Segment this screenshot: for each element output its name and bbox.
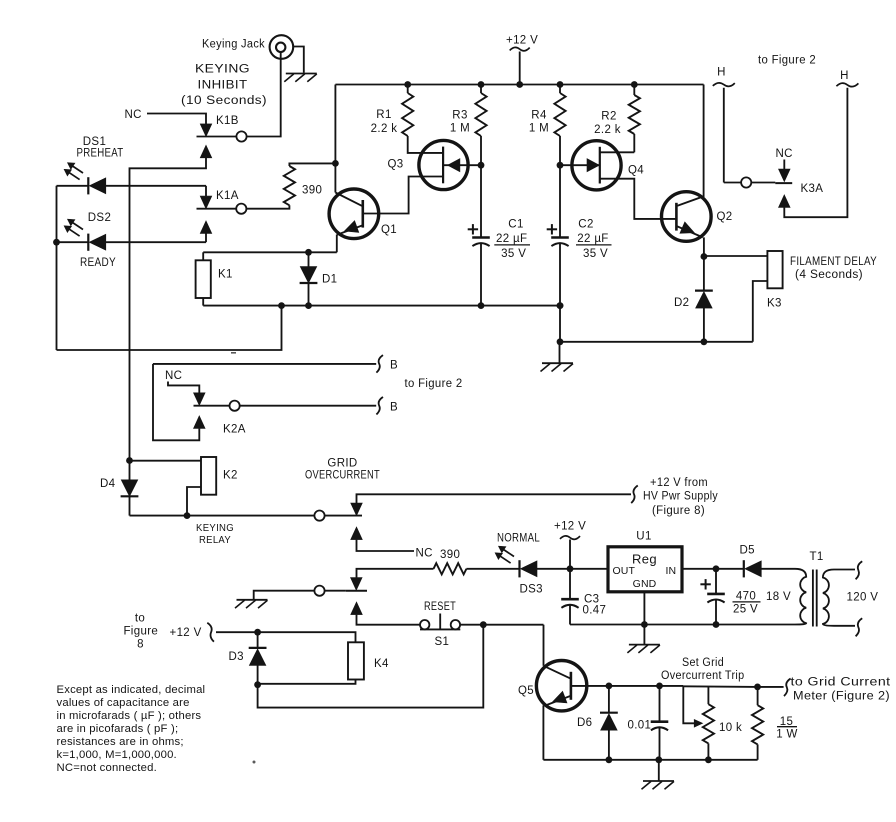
svg-text:8: 8 xyxy=(137,638,144,650)
wire K3A fixed xyxy=(751,182,775,184)
node K2 bottom xyxy=(184,512,191,519)
svg-text:Set Grid: Set Grid xyxy=(682,657,724,669)
connector bracket grid meter xyxy=(784,679,791,697)
svg-text:K3: K3 xyxy=(767,298,782,310)
diode D5 xyxy=(743,560,745,577)
keying jack J1 xyxy=(270,35,294,59)
wire collector rail to meter xyxy=(683,685,757,688)
wire D6 leads xyxy=(608,686,610,713)
svg-text:NORMAL: NORMAL xyxy=(497,533,540,545)
resistor R2 xyxy=(629,95,640,134)
wire K2 bottom xyxy=(187,487,201,516)
wire +12V row xyxy=(216,632,356,642)
svg-text:Q5: Q5 xyxy=(518,685,534,697)
connector bracket HV supply xyxy=(631,486,638,504)
svg-text:FILAMENT DELAY: FILAMENT DELAY xyxy=(790,256,877,268)
contact circle keying relay xyxy=(314,510,324,520)
svg-text:Except as indicated, decimal: Except as indicated, decimal xyxy=(57,684,206,696)
potentiometer 10 k xyxy=(703,704,714,743)
svg-text:Keying Jack: Keying Jack xyxy=(202,39,265,51)
wire ground stem 0.01 xyxy=(658,760,660,781)
wire bottom left run xyxy=(57,306,282,350)
node 0.01 top xyxy=(656,683,663,690)
wire rail jog down xyxy=(559,306,561,342)
svg-text:R4: R4 xyxy=(531,110,547,122)
wire D2 bottom xyxy=(703,308,705,342)
relay contact K3A lower arrow xyxy=(779,195,791,208)
svg-text:Q1: Q1 xyxy=(381,224,397,236)
svg-text:22 µF: 22 µF xyxy=(496,233,527,245)
relay contact K2A lower arrow xyxy=(194,416,206,429)
svg-text:GND: GND xyxy=(633,578,657,590)
wire R4 bottom to C2 xyxy=(559,136,561,237)
transistor Q4 channel bar xyxy=(599,147,601,184)
svg-text:D3: D3 xyxy=(229,651,244,663)
svg-text:k=1,000, M=1,000,000.: k=1,000, M=1,000,000. xyxy=(57,749,177,761)
wire K2A to B lower xyxy=(240,405,377,407)
wire K1B lower arm to left bus xyxy=(130,158,207,461)
wire K2A frame xyxy=(153,364,199,440)
svg-text:35 V: 35 V xyxy=(583,248,608,260)
contact circle row2 xyxy=(314,586,324,596)
wire jack sleeve to ground xyxy=(293,47,304,73)
relay coil K2 xyxy=(201,457,216,495)
svg-text:DS2: DS2 xyxy=(88,212,111,224)
svg-text:OVERCURRENT: OVERCURRENT xyxy=(305,470,380,482)
wire R1 bottom to Q3 drain xyxy=(408,136,443,153)
wire C2 bottom xyxy=(559,243,561,306)
wire K4 bottom xyxy=(258,680,356,684)
node +12V stem xyxy=(516,81,523,88)
node D3 bottom xyxy=(254,681,261,688)
wire row2 to ground xyxy=(254,591,346,600)
relay contact K1A armature arrow xyxy=(200,196,212,209)
svg-text:PREHEAT: PREHEAT xyxy=(77,148,124,160)
wire rail drop to Q1 node xyxy=(334,85,336,193)
diode D3 xyxy=(249,647,267,649)
svg-text:OUT: OUT xyxy=(613,565,636,577)
resistor R3 xyxy=(475,93,486,136)
ground below 0.01 xyxy=(643,780,674,782)
wire jack tip down to K1B xyxy=(247,52,281,136)
svg-text:INHIBIT: INHIBIT xyxy=(198,80,248,92)
relay contact row2 armature arrow xyxy=(351,578,363,591)
svg-text:Q4: Q4 xyxy=(628,165,644,177)
svg-text:to Figure 2: to Figure 2 xyxy=(758,55,816,67)
svg-text:U1: U1 xyxy=(636,531,651,543)
svg-text:K1: K1 xyxy=(218,269,233,281)
relay contact K3A upper arrow xyxy=(779,169,791,182)
svg-text:Overcurrent Trip: Overcurrent Trip xyxy=(661,670,745,682)
svg-text:D2: D2 xyxy=(674,297,689,309)
transistor Q2 base bar xyxy=(675,203,678,231)
wire loop to S1 node xyxy=(258,625,484,707)
wire 390 top to +12V node xyxy=(289,163,335,166)
wire bottom rail xyxy=(543,759,757,761)
svg-text:R3: R3 xyxy=(452,110,467,122)
svg-text:T1: T1 xyxy=(810,551,824,563)
svg-text:D6: D6 xyxy=(577,717,592,729)
LED DS3 xyxy=(518,560,520,577)
transformer T1 core xyxy=(812,570,814,627)
wire grid-oc arm to HV supply xyxy=(357,494,632,503)
node D1 bottom xyxy=(305,302,312,309)
wire D5 to T1 xyxy=(761,568,795,570)
wire R3 top xyxy=(480,85,482,94)
svg-text:HV Pwr Supply: HV Pwr Supply xyxy=(643,491,718,503)
svg-text:1 M: 1 M xyxy=(529,123,549,135)
LED DS1 xyxy=(87,177,89,194)
svg-text:0.47: 0.47 xyxy=(583,605,607,617)
capacitor C2 xyxy=(551,236,569,239)
wire D1 bottom lead xyxy=(308,284,310,306)
wire C1 bottom xyxy=(480,243,482,306)
diode D6 xyxy=(600,712,618,714)
wire R3 bottom to C1 xyxy=(480,136,482,237)
potentiometer wiper arrow xyxy=(694,720,702,728)
connector bracket +12V left xyxy=(207,623,214,642)
relay coil K3 xyxy=(767,251,782,288)
ground at keying jack xyxy=(286,73,317,75)
svg-text:K1B: K1B xyxy=(216,115,239,127)
transistor Q1 circle xyxy=(329,189,379,239)
transformer T1 secondary xyxy=(823,570,834,626)
node U1 gnd xyxy=(641,621,648,628)
svg-text:Reg: Reg xyxy=(632,552,657,567)
wire H left down xyxy=(723,88,725,183)
wire K1A lower arm to DS2 row xyxy=(205,234,207,243)
wire D3 leads xyxy=(257,632,259,648)
svg-text:(Figure 8): (Figure 8) xyxy=(652,505,705,517)
svg-text:10 k: 10 k xyxy=(719,722,742,734)
svg-text:values of capacitance are: values of capacitance are xyxy=(57,697,190,709)
diode D2 xyxy=(695,290,713,292)
wire C3 leads xyxy=(569,569,571,599)
relay contact K2A armature arrow xyxy=(194,393,206,406)
node D2 bottom xyxy=(701,338,708,345)
relay contact K1B lower arrow xyxy=(200,145,212,158)
transistor Q2 circle xyxy=(662,192,712,242)
svg-text:IN: IN xyxy=(666,565,677,577)
svg-text:R1: R1 xyxy=(376,109,391,121)
capacitor C3 xyxy=(561,598,579,601)
svg-text:+12 V from: +12 V from xyxy=(650,477,708,489)
wire K1 stems xyxy=(202,252,204,260)
connector bracket B lower xyxy=(376,397,383,415)
relay contact row2 lower arrow xyxy=(351,602,363,615)
transistor Q1 base lead xyxy=(364,177,443,214)
transistor Q5 base bar xyxy=(570,672,573,700)
power +12V top xyxy=(510,47,530,51)
wire pot leads xyxy=(707,687,709,704)
svg-text:NC: NC xyxy=(125,109,142,121)
transistor Q4 gate lead with arrow xyxy=(560,164,600,166)
node rail2 start xyxy=(557,338,564,345)
wire bottom rail right xyxy=(570,624,795,626)
wire row2 arm to S1 xyxy=(357,615,420,625)
svg-text:(4 Seconds): (4 Seconds) xyxy=(795,269,863,281)
wire U1 GND pin xyxy=(643,592,645,625)
wire armature to 390 xyxy=(357,569,434,578)
wire ground stem (C2 rail) xyxy=(559,342,561,363)
node Q2 emitter / K3 / D2 xyxy=(701,253,708,260)
wire ground rail y305 xyxy=(203,305,560,307)
svg-text:C1: C1 xyxy=(508,219,523,231)
svg-text:NC=not connected.: NC=not connected. xyxy=(57,762,157,774)
node Q1 collector / 390 / rail xyxy=(332,160,339,167)
svg-text:H: H xyxy=(717,67,726,79)
svg-text:Q2: Q2 xyxy=(717,211,733,223)
svg-text:RESET: RESET xyxy=(424,601,456,613)
node C1 bottom xyxy=(478,302,485,309)
resistor R1 xyxy=(402,93,413,136)
connector bracket 120V bottom xyxy=(856,618,863,636)
svg-text:2.2 k: 2.2 k xyxy=(594,124,621,136)
wire T1 secondary top xyxy=(834,569,855,571)
capacitor 470/25V xyxy=(707,593,725,596)
wire DS3 to U1 OUT xyxy=(537,568,609,570)
wire ground stem U1 xyxy=(643,625,645,645)
wire K1A armature stem xyxy=(205,186,207,196)
node R4 top xyxy=(557,81,564,88)
wire keying relay row xyxy=(130,515,363,517)
transistor Q1 base bar xyxy=(361,200,364,228)
contact circle K2A xyxy=(230,401,240,411)
svg-text:1 W: 1 W xyxy=(776,729,798,741)
ground at row2 xyxy=(237,599,268,601)
wire 390 to DS3 xyxy=(466,568,519,570)
wire 470 leads xyxy=(715,569,717,594)
switch S1 contacts xyxy=(420,620,429,629)
svg-text:0.01: 0.01 xyxy=(628,720,652,732)
capacitor 0.01 xyxy=(651,720,669,723)
node C2 bottom xyxy=(557,302,564,309)
svg-text:KEYING: KEYING xyxy=(196,522,234,534)
wire D2 top xyxy=(703,257,705,291)
node R1 top xyxy=(404,81,411,88)
relay coil K1 xyxy=(196,260,211,298)
relay contact grid-oc lower arrow xyxy=(351,527,363,540)
svg-text:B: B xyxy=(390,402,398,414)
wire wiper drop xyxy=(683,686,696,723)
svg-text:470: 470 xyxy=(736,591,756,603)
svg-text:to Figure 2: to Figure 2 xyxy=(405,378,463,390)
wire D1 top lead xyxy=(308,252,310,266)
contact circle K3A xyxy=(741,177,751,187)
capacitor C1 xyxy=(472,236,490,239)
svg-text:READY: READY xyxy=(80,257,116,269)
node D1 top xyxy=(305,249,312,256)
svg-text:in microfarads ( µF ); others: in microfarads ( µF ); others xyxy=(57,710,202,722)
wire 15 ohm leads xyxy=(757,687,759,705)
node Q4 gate / R4 / C2 xyxy=(557,162,564,169)
node Q3 gate / R3 / C1 xyxy=(478,162,485,169)
svg-text:RELAY: RELAY xyxy=(199,534,231,546)
svg-text:+12 V: +12 V xyxy=(170,627,202,639)
svg-text:K4: K4 xyxy=(374,658,389,670)
svg-text:S1: S1 xyxy=(435,636,450,648)
wire 0.01 leads xyxy=(659,686,661,722)
transistor Q1 emitter xyxy=(337,225,363,235)
svg-text:Q3: Q3 xyxy=(388,159,404,171)
switch S1 plunger xyxy=(439,614,441,630)
wire left rail down from DS1 xyxy=(56,186,58,350)
svg-text:DS1: DS1 xyxy=(83,136,106,148)
resistor 390 (DS3) xyxy=(434,563,467,574)
svg-text:18 V: 18 V xyxy=(766,591,791,603)
node OUT / C3 / +12V xyxy=(567,565,574,572)
wire NC stub xyxy=(357,540,415,551)
wire K3A lower arm to H right xyxy=(784,88,847,217)
node at DS2 left xyxy=(53,239,60,246)
svg-text:22 µF: 22 µF xyxy=(577,233,608,245)
wire B upper row xyxy=(153,363,376,365)
wire R1 top xyxy=(407,85,409,94)
wire K2 top xyxy=(130,460,202,462)
svg-text:+12 V: +12 V xyxy=(506,35,538,47)
ground below U1 xyxy=(629,644,660,646)
svg-text:DS3: DS3 xyxy=(520,583,543,595)
node 470 bottom xyxy=(713,621,720,628)
relay coil K4 xyxy=(348,642,364,679)
wire DS1 row xyxy=(57,185,89,187)
wire meter bracket stub xyxy=(758,686,784,688)
IC U1 box xyxy=(608,547,682,592)
relay contact K1B armature arrow xyxy=(200,124,212,137)
wire K3 bottom xyxy=(753,281,768,342)
relay contact grid-oc armature arrow xyxy=(351,503,363,516)
wire K1 top rail xyxy=(203,251,337,253)
speck xyxy=(231,352,236,354)
transistor Q3 circle xyxy=(419,140,468,189)
diode D1 xyxy=(300,267,317,284)
wire K3A contact bar xyxy=(775,182,792,184)
wire NC stem xyxy=(783,160,785,170)
wire R2 top xyxy=(633,85,635,96)
wire S1 to Q5 base xyxy=(460,624,543,626)
transistor Q5 circle xyxy=(536,661,586,711)
svg-text:GRID: GRID xyxy=(327,458,357,470)
wire K1A fixed contact xyxy=(197,208,237,210)
ground below C2 rail xyxy=(542,362,573,364)
svg-text:+12 V: +12 V xyxy=(554,521,586,533)
svg-text:R2: R2 xyxy=(601,111,616,123)
wire NC to K1B armature xyxy=(147,114,206,125)
node R2 top xyxy=(631,81,638,88)
connector bracket 120V top xyxy=(856,561,863,579)
svg-text:1 M: 1 M xyxy=(450,123,470,135)
svg-text:KEYING: KEYING xyxy=(195,64,250,76)
svg-text:to Grid Current: to Grid Current xyxy=(791,677,892,689)
transformer T1 primary xyxy=(795,569,806,625)
node 470 top xyxy=(713,565,720,572)
svg-text:C2: C2 xyxy=(578,219,593,231)
node rail end at C2 xyxy=(557,302,564,309)
node pot bottom xyxy=(705,756,712,763)
svg-text:390: 390 xyxy=(302,184,322,196)
wire +12V top rail xyxy=(335,84,703,86)
node K2 top xyxy=(126,457,133,464)
wire R2 bottom xyxy=(633,134,635,152)
relay contact K1A lower arrow xyxy=(200,221,212,234)
wire K2A fixed left xyxy=(194,405,230,407)
resistor 390 (K1A) xyxy=(284,166,295,205)
svg-text:35 V: 35 V xyxy=(501,248,526,260)
svg-text:25 V: 25 V xyxy=(733,603,758,615)
svg-text:15: 15 xyxy=(780,716,794,728)
wire U1 IN to D5 xyxy=(682,568,744,570)
svg-text:to: to xyxy=(135,612,145,624)
transistor Q2 emitter xyxy=(676,226,702,237)
svg-text:H: H xyxy=(840,70,849,82)
transistor Q5 emitter xyxy=(545,696,571,706)
svg-text:D5: D5 xyxy=(740,545,755,557)
wire to K3A circle xyxy=(724,182,741,184)
speck xyxy=(253,761,256,764)
svg-text:are in picofarads ( pF );: are in picofarads ( pF ); xyxy=(57,723,179,735)
resistor R4 xyxy=(554,93,565,136)
svg-text:Figure: Figure xyxy=(123,625,158,637)
svg-text:B: B xyxy=(390,360,398,372)
svg-text:K2: K2 xyxy=(223,470,238,482)
wire T1 secondary bottom xyxy=(834,625,855,627)
contact circle K1A xyxy=(236,204,246,214)
svg-text:NC: NC xyxy=(416,548,433,560)
svg-text:K2A: K2A xyxy=(223,424,246,436)
svg-text:(10 Seconds): (10 Seconds) xyxy=(181,95,267,107)
wire Q5 base drop xyxy=(543,625,545,666)
svg-text:K1A: K1A xyxy=(216,190,239,202)
resistor 15 / 1 W xyxy=(752,705,763,744)
wire Q4 source to R2 xyxy=(600,151,635,153)
node left riser xyxy=(278,302,285,309)
svg-text:120 V: 120 V xyxy=(847,591,879,603)
node S1 right xyxy=(480,621,487,628)
svg-text:resistances are in ohms;: resistances are in ohms; xyxy=(57,736,184,748)
wire D4 leads xyxy=(129,461,131,480)
svg-text:390: 390 xyxy=(440,549,460,561)
wire R4 top xyxy=(559,85,561,94)
LED DS2 xyxy=(87,234,89,251)
svg-text:Meter (Figure 2): Meter (Figure 2) xyxy=(793,690,890,702)
connector bracket B upper xyxy=(376,355,383,373)
svg-text:D1: D1 xyxy=(322,274,337,286)
wire row2 contact bar xyxy=(346,590,367,592)
node D6 bottom xyxy=(606,756,613,763)
svg-text:NC: NC xyxy=(165,370,182,382)
transistor Q3 channel bar xyxy=(442,147,444,184)
node R3 top xyxy=(478,81,485,88)
transistor Q5 base slant xyxy=(544,666,571,679)
contact circle K1B xyxy=(236,131,246,141)
wire K1B fixed contact xyxy=(197,136,237,138)
transistor Q1 collector slant xyxy=(335,193,361,206)
node meter tap xyxy=(754,684,761,691)
wire to relay K3 coil xyxy=(704,255,768,257)
wire DS2 row xyxy=(57,241,89,243)
node D6 top xyxy=(606,683,613,690)
wire Q4 drain to Q2 base xyxy=(600,179,677,219)
wire NC to K2A armature xyxy=(168,382,199,393)
node 0.01 bottom xyxy=(655,756,662,763)
svg-text:NC: NC xyxy=(776,148,793,160)
transistor Q4 circle xyxy=(572,141,621,190)
diode D4 xyxy=(121,480,138,497)
svg-text:K3A: K3A xyxy=(801,183,824,195)
transistor Q2 collector xyxy=(677,85,703,206)
node D3 top xyxy=(254,629,261,636)
wire K1A to resistor 390 xyxy=(246,205,289,208)
